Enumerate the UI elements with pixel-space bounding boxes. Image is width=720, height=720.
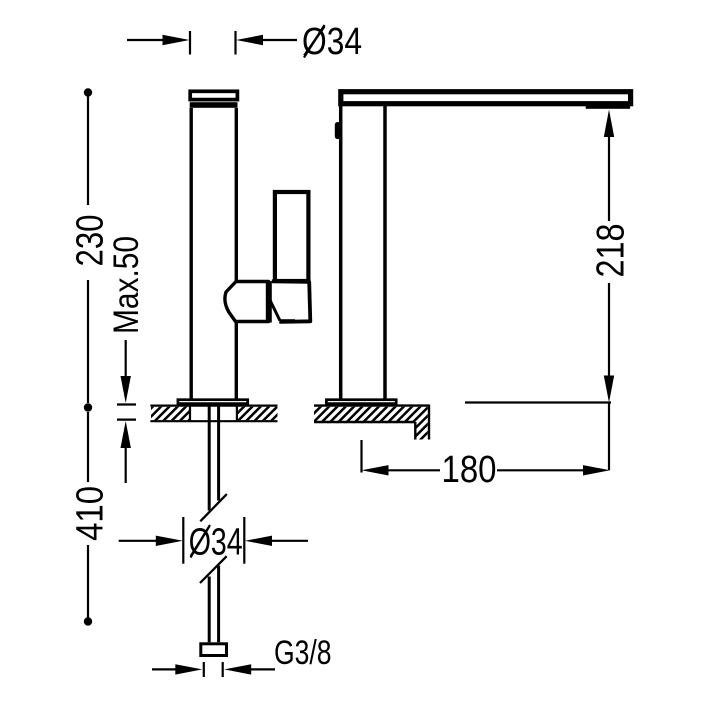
svg-text:230: 230 <box>70 215 112 267</box>
svg-text:218: 218 <box>590 224 633 278</box>
svg-text:410: 410 <box>70 486 112 541</box>
svg-text:G3/8: G3/8 <box>274 634 332 672</box>
svg-text:180: 180 <box>442 449 497 491</box>
svg-text:Ø34: Ø34 <box>302 21 362 63</box>
svg-text:Max.50: Max.50 <box>107 236 146 334</box>
svg-text:Ø34: Ø34 <box>189 521 243 563</box>
